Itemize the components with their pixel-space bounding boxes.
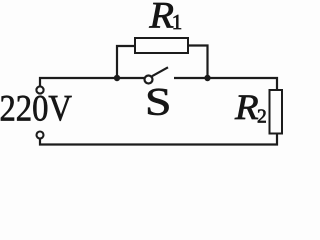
- switch S lever: [152, 67, 168, 76]
- terminal bottom circle: [37, 132, 44, 139]
- resistor R2: [270, 90, 283, 134]
- svg-text:S: S: [145, 80, 171, 123]
- terminal top circle: [36, 86, 43, 93]
- node junction left: [114, 75, 120, 81]
- svg-text:R: R: [234, 88, 259, 127]
- wire top-left from terminal to switch: [40, 78, 145, 87]
- wire R1 left lead: [117, 46, 135, 78]
- wire bottom return: [40, 134, 277, 145]
- svg-text:220V: 220V: [0, 89, 72, 130]
- wire switch to right corner: [174, 78, 277, 90]
- resistor R1: [135, 38, 188, 53]
- svg-text:1: 1: [172, 10, 183, 34]
- wire R1 right lead: [188, 46, 208, 79]
- svg-text:2: 2: [257, 106, 267, 127]
- switch S pivot circle: [145, 76, 153, 84]
- node junction right: [204, 75, 210, 81]
- svg-text:R: R: [148, 0, 174, 36]
